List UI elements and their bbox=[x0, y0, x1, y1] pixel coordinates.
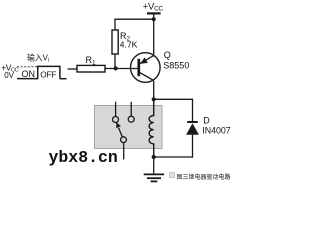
node Vcc junction bbox=[152, 17, 156, 21]
waveform Vcc level OFF segment bbox=[38, 65, 60, 67]
wire input to R1 bbox=[68, 68, 78, 70]
relay body bbox=[95, 106, 163, 149]
svg-text:+VCC: +VCC bbox=[143, 1, 164, 12]
wire Vcc node to R2 top bbox=[115, 19, 154, 30]
svg-text:IN4007: IN4007 bbox=[202, 125, 230, 135]
waveform rising edge bbox=[37, 66, 39, 80]
transistor emitter line bbox=[140, 56, 154, 64]
transistor emitter arrow PNP bbox=[140, 57, 148, 64]
node relay coil bottom bbox=[152, 155, 156, 159]
ground bar 3 bbox=[151, 180, 158, 182]
transistor Q1 circle bbox=[131, 53, 161, 83]
wire diode cathode lead bbox=[192, 99, 194, 122]
transistor base bar bbox=[137, 59, 140, 76]
wire coil bottom to diode anode bbox=[154, 156, 193, 158]
svg-text:R1: R1 bbox=[86, 55, 97, 67]
svg-text:OFF: OFF bbox=[40, 69, 56, 79]
diode D body bbox=[186, 123, 199, 135]
power +Vcc terminal bar bbox=[147, 12, 161, 14]
relay armature arrow bbox=[116, 122, 121, 128]
wire to ground bbox=[153, 157, 155, 174]
relay contact right bbox=[128, 116, 134, 122]
node relay coil top bbox=[152, 97, 156, 101]
relay common terminal stub bbox=[123, 143, 125, 160]
waveform 0V line ON segment bbox=[17, 78, 38, 80]
wire emitter to Vcc node bbox=[153, 19, 155, 55]
svg-text:ON: ON bbox=[22, 69, 36, 79]
diode D cathode bar bbox=[187, 121, 198, 123]
ground bar 1 bbox=[144, 173, 165, 175]
relay armature pivot bbox=[121, 137, 127, 143]
waveform Vcc dashed level bbox=[17, 66, 39, 68]
caption marker square bbox=[170, 173, 175, 178]
transistor collector line bbox=[140, 72, 154, 80]
svg-text:Q: Q bbox=[164, 50, 171, 60]
wire R1 to base bbox=[105, 68, 139, 70]
svg-text:0V: 0V bbox=[4, 71, 14, 80]
ground bar 2 bbox=[147, 177, 161, 179]
resistor R1 bbox=[77, 65, 105, 72]
relay coil L bbox=[149, 99, 154, 157]
resistor R2 bbox=[112, 30, 118, 54]
waveform 0V tail bbox=[60, 78, 67, 80]
svg-text:4.7K: 4.7K bbox=[120, 40, 138, 50]
wire R2 bottom lead bbox=[114, 54, 116, 69]
svg-text:输入Vi: 输入Vi bbox=[27, 52, 49, 63]
relay armature line bbox=[119, 128, 123, 138]
wire coil top to diode cathode bbox=[154, 98, 193, 100]
relay contact terminal stub left bbox=[115, 102, 117, 117]
wire diode anode lead bbox=[192, 135, 194, 158]
waveform falling edge bbox=[59, 66, 61, 79]
node base junction bbox=[114, 66, 118, 70]
svg-text:图三继电器驱动电路: 图三继电器驱动电路 bbox=[177, 173, 231, 181]
svg-text:ybx8.cn: ybx8.cn bbox=[49, 148, 118, 167]
wire Vcc terminal to node bbox=[153, 13, 155, 19]
wire collector down to relay bbox=[153, 81, 155, 100]
relay contact left bbox=[113, 117, 119, 123]
svg-text:S8550: S8550 bbox=[163, 60, 189, 70]
relay contact terminal stub right bbox=[130, 102, 132, 116]
svg-text:D: D bbox=[203, 116, 210, 126]
